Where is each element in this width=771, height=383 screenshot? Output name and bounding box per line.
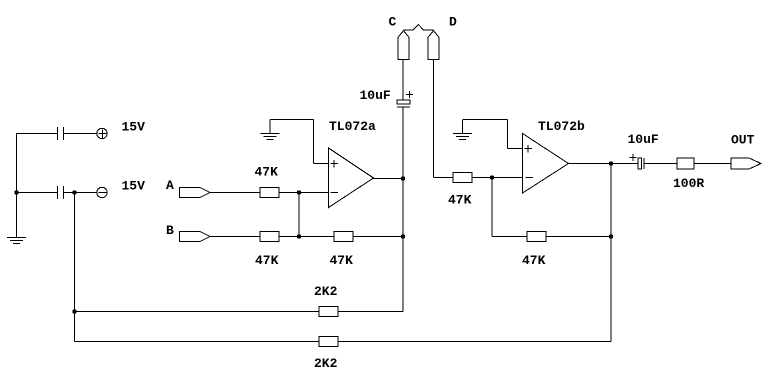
- wire: U1 + input stub: [314, 163, 329, 165]
- wire: row2 left segment: [75, 311, 320, 313]
- wire: row3 left segment: [75, 341, 320, 343]
- wire: feedback resistor to U2 output bus: [546, 236, 611, 238]
- connector D: [428, 31, 439, 60]
- wire: left supply rail vertical: [16, 134, 18, 238]
- connector A: [180, 188, 211, 198]
- svg-text:100R: 100R: [673, 176, 704, 191]
- wire: U2 feedback node to resistor: [492, 236, 527, 238]
- op-amp U1 TL072a: [329, 148, 374, 208]
- svg-text:10uF: 10uF: [360, 88, 391, 103]
- C2 plus sign: [630, 154, 637, 161]
- resistor 2K2 (row3): [319, 337, 338, 347]
- svg-text:D: D: [449, 15, 457, 30]
- U2 plus symbol: [525, 145, 533, 153]
- wire: +15V branch right segment: [64, 133, 98, 135]
- junction: U1 output node: [401, 176, 405, 180]
- wire: U2 output to coupling cap 2: [611, 163, 638, 165]
- wire: output bus vertical (cap to row2): [402, 107, 404, 312]
- wire: U2 output stub: [569, 163, 612, 165]
- wire: U2 feedback vertical: [491, 178, 493, 237]
- svg-text:47K: 47K: [330, 253, 354, 268]
- svg-text:TL072b: TL072b: [538, 119, 585, 134]
- capacitor (+15V decoupling): [58, 127, 64, 140]
- wire: B input to resistor: [210, 236, 260, 238]
- resistor 47K (feedback U1): [334, 232, 353, 242]
- ground (supply rail): [7, 238, 26, 244]
- junction: U2 inverting node: [490, 175, 494, 179]
- wire: C connector down to coupling cap: [402, 60, 404, 101]
- junction: feedback / output bus: [401, 234, 405, 238]
- svg-text:C: C: [389, 15, 397, 30]
- ground (op-amp U2 non-inverting): [453, 120, 472, 140]
- wire: jumper C to D: [404, 25, 434, 31]
- junction: U2 feedback / output bus: [609, 234, 613, 238]
- wire: row2 right segment: [338, 311, 403, 313]
- wire: ground to U1 + input (vertical): [313, 120, 315, 164]
- U1 plus symbol: [331, 160, 339, 168]
- resistor 47K (feedback U2): [527, 232, 546, 242]
- resistor 47K (input A): [260, 188, 279, 198]
- svg-text:2K2: 2K2: [314, 356, 338, 371]
- wire: U2 + input stub: [508, 148, 523, 150]
- svg-text:2K2: 2K2: [314, 284, 338, 299]
- connector OUT: [731, 158, 761, 169]
- wire: ground to U2 + input (vertical): [507, 120, 509, 149]
- resistor 100R: [677, 158, 694, 169]
- connector C: [398, 31, 409, 60]
- svg-text:OUT: OUT: [731, 133, 755, 148]
- U2 minus symbol: [526, 177, 534, 179]
- svg-text:B: B: [166, 223, 174, 238]
- wire: -15V branch right segment: [64, 192, 98, 194]
- wire: left vertical bus from -15V node down: [74, 193, 76, 342]
- +15V supply terminal circle: [97, 128, 107, 138]
- svg-text:47K: 47K: [448, 193, 472, 208]
- capacitor C1 negative plate: [397, 106, 410, 108]
- wire: -15V branch left segment: [16, 192, 57, 194]
- wire: resistor B to feedback resistor: [279, 236, 334, 238]
- junction: -15V cap output node: [72, 190, 76, 194]
- wire: D to 47K: [434, 177, 454, 179]
- junction: U2 output node: [609, 161, 613, 165]
- junction: left bus / row2: [72, 309, 76, 313]
- ground (op-amp U1 non-inverting): [261, 120, 280, 140]
- C1 plus sign: [406, 91, 413, 98]
- junction: summing node (A row): [297, 190, 301, 194]
- svg-text:15V: 15V: [122, 120, 146, 135]
- resistor 47K (U2 input): [453, 173, 472, 183]
- -15V supply terminal circle: [97, 187, 107, 197]
- wire: ground to U2 + input (horizontal): [463, 119, 508, 121]
- resistor 47K (input B): [260, 232, 279, 242]
- capacitor 10uF (C2 polarized, plus plate): [638, 158, 642, 169]
- svg-text:47K: 47K: [522, 253, 546, 268]
- svg-text:A: A: [166, 178, 174, 193]
- wire: +15V branch left segment: [16, 133, 57, 135]
- capacitor 10uF (C1 polarized, plus plate): [397, 100, 410, 104]
- wire: A input to resistor: [210, 192, 260, 194]
- svg-text:47K: 47K: [255, 165, 279, 180]
- junction: rail / -15V wire: [14, 190, 18, 194]
- svg-text:15V: 15V: [122, 179, 146, 194]
- capacitor C2 negative plate: [643, 158, 645, 169]
- svg-text:10uF: 10uF: [628, 132, 659, 147]
- op-amp U2 TL072b: [523, 134, 569, 194]
- wire: summing node vertical: [298, 193, 300, 237]
- wire: output bus vertical (U2 out to row3): [610, 164, 612, 342]
- connector B: [180, 232, 211, 242]
- wire: 100R to OUT connector: [694, 163, 731, 165]
- junction: summing node (B row): [297, 234, 301, 238]
- U1 minus symbol: [331, 192, 339, 194]
- resistor 2K2 (row2): [319, 307, 338, 317]
- capacitor (-15V decoupling): [58, 186, 64, 199]
- wire: cap 2 to 100R: [644, 163, 677, 165]
- wire: resistor A to op-amp inverting input: [279, 192, 328, 194]
- svg-text:47K: 47K: [255, 253, 279, 268]
- wire: 47K to U2 inverting input: [472, 177, 523, 179]
- wire: U1 output stub: [374, 178, 404, 180]
- wire: feedback resistor to output bus: [353, 236, 403, 238]
- svg-text:TL072a: TL072a: [329, 119, 376, 134]
- wire: ground to U1 + input (horizontal): [270, 119, 314, 121]
- wire: row3 right segment: [338, 341, 611, 343]
- wire: D connector down: [433, 60, 435, 178]
